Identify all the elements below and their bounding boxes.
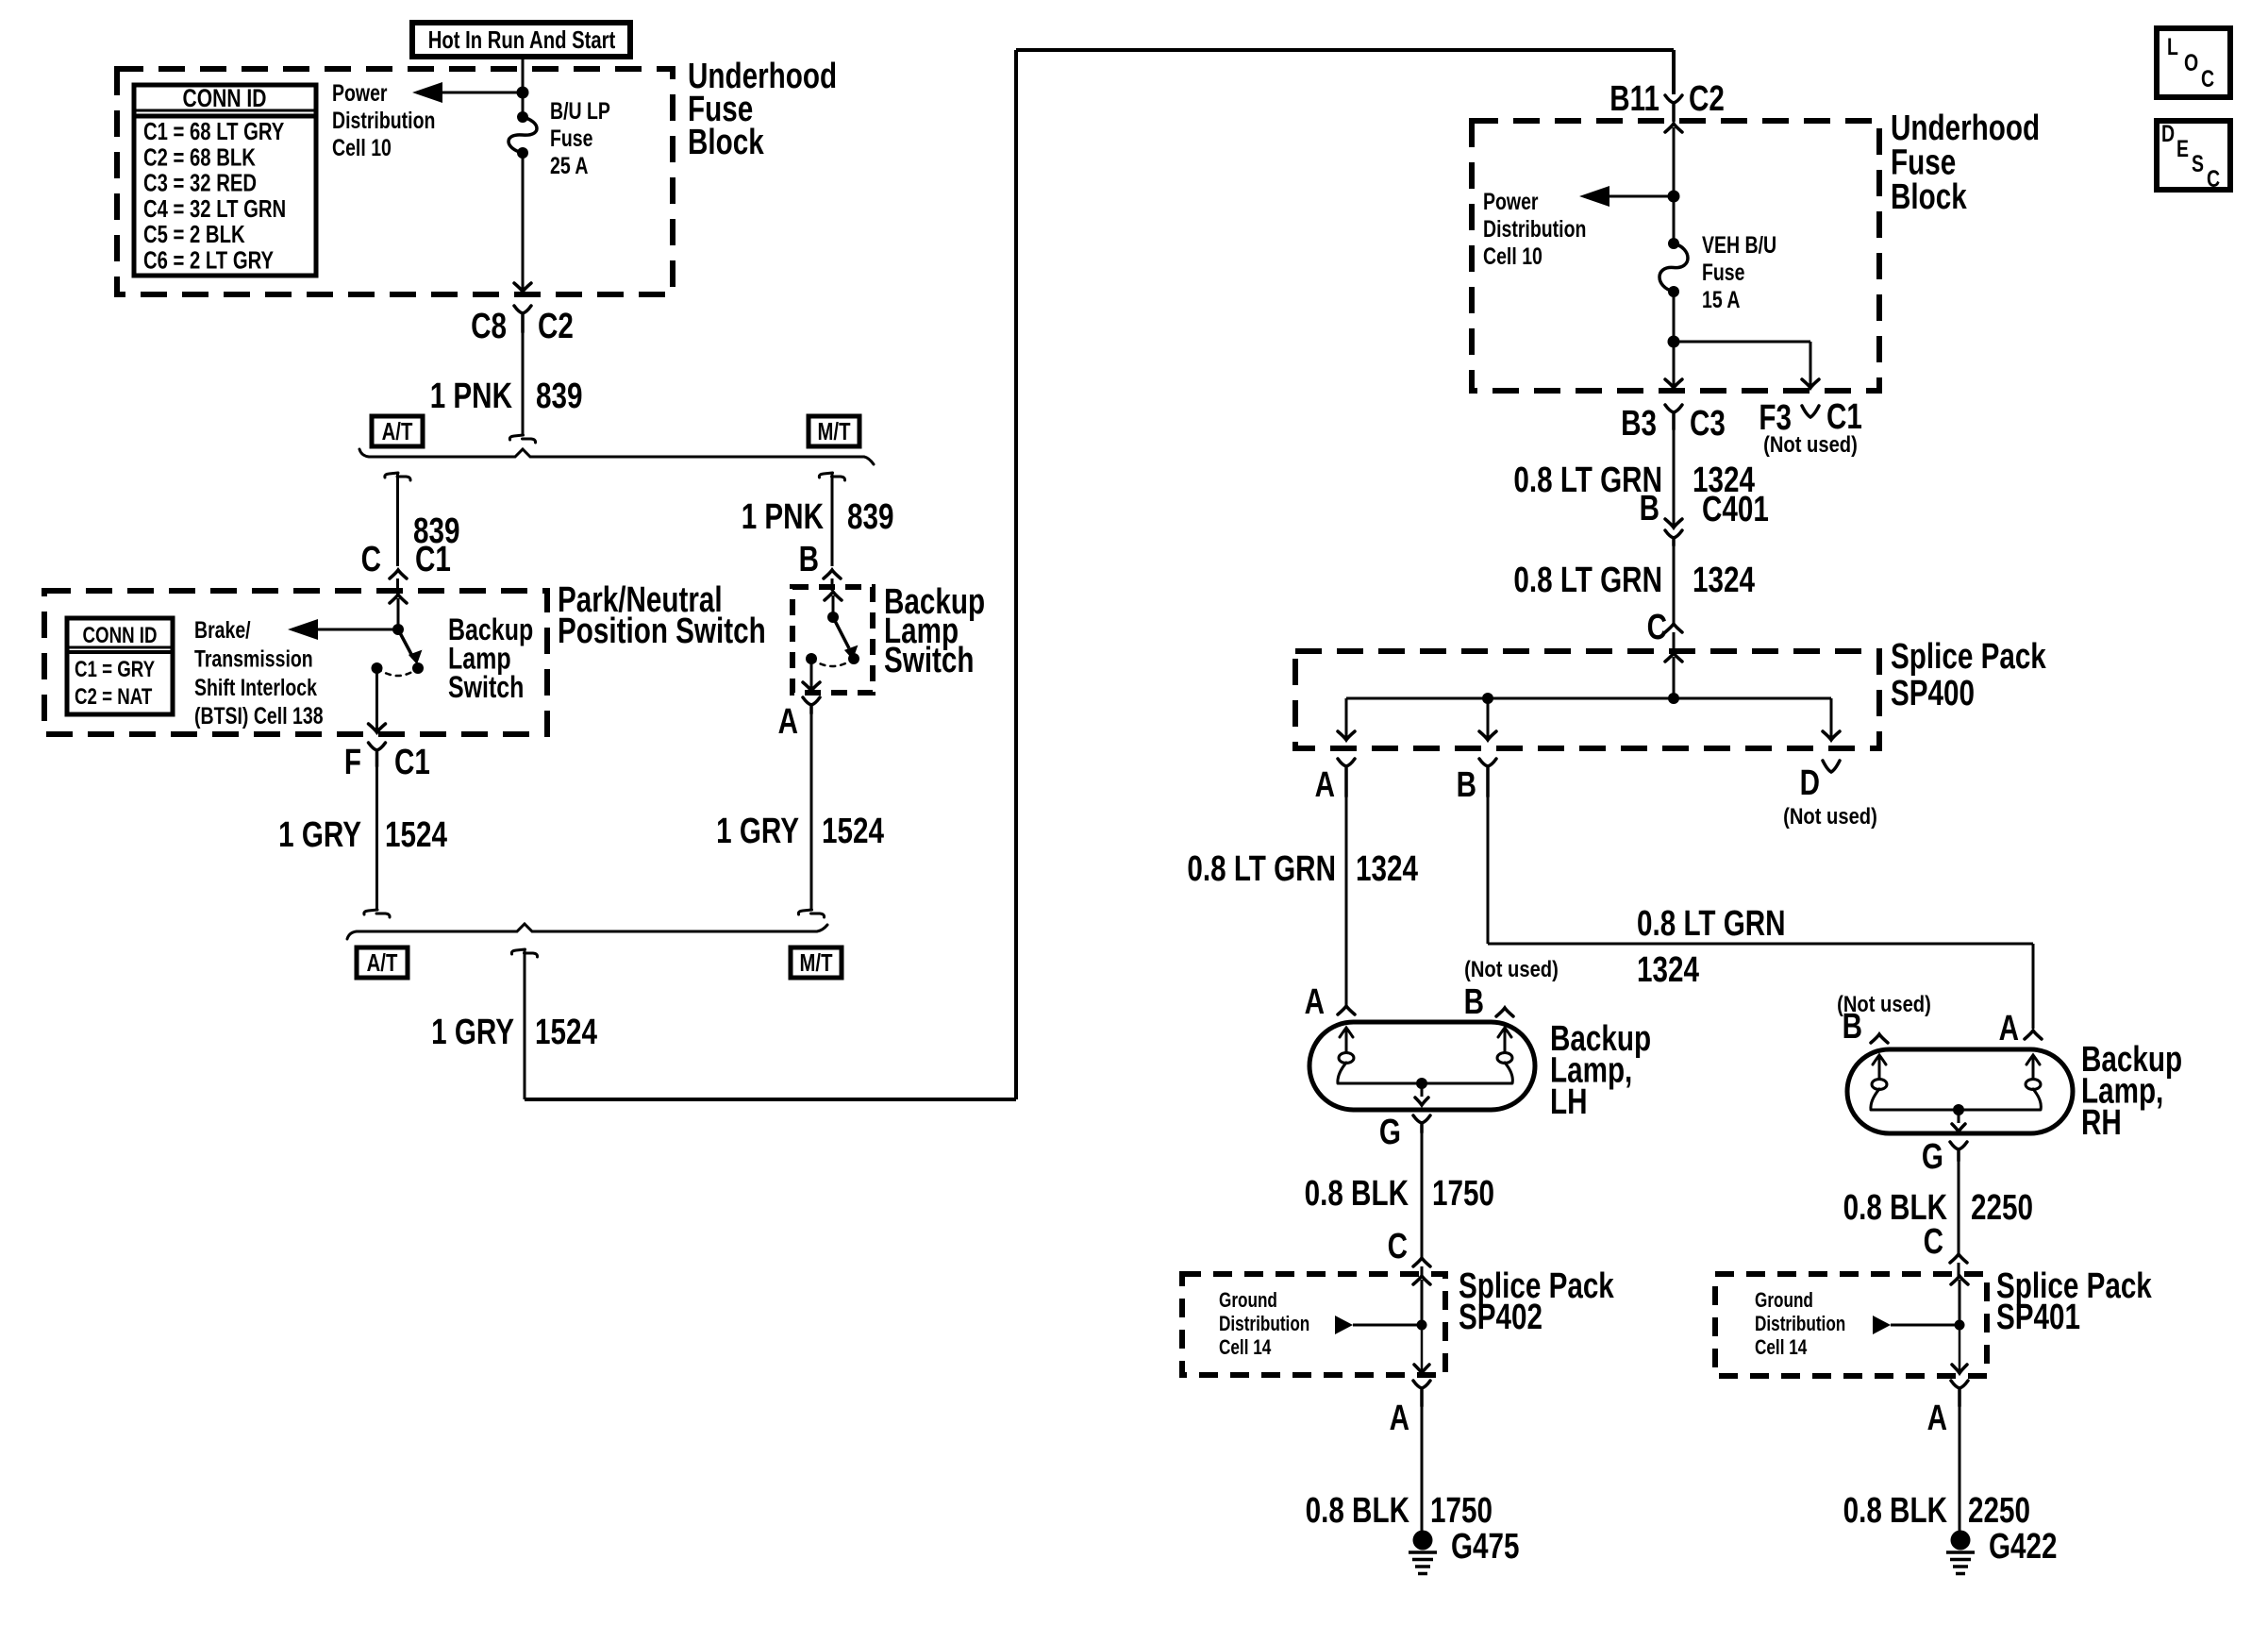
connector B female below SP400 bbox=[1479, 759, 1496, 796]
LOC reference box bbox=[2157, 28, 2230, 97]
svg-text:C: C bbox=[1647, 608, 1667, 647]
svg-text:Cell 10: Cell 10 bbox=[332, 135, 392, 161]
svg-text:0.8 BLK: 0.8 BLK bbox=[1306, 1491, 1410, 1531]
junction dot SP400 at C entry bbox=[1668, 693, 1679, 704]
fuse VEH B/U 15A (squiggle with terminals) bbox=[1668, 238, 1679, 249]
wire 0.8 LT GRN 1324 lower bbox=[1673, 545, 1676, 624]
wire M/T branch 1 PNK 839 bbox=[831, 473, 834, 566]
connector C8/C2 female symbol bbox=[514, 306, 531, 332]
connector C male chevron into SP400 bbox=[1665, 624, 1682, 632]
SP400 drop B with arrow bbox=[1487, 698, 1490, 738]
svg-text:LH: LH bbox=[1550, 1082, 1588, 1122]
svg-text:D: D bbox=[1800, 763, 1820, 803]
junction dot power distribution tap (right) bbox=[1668, 191, 1680, 203]
underhood fuse block (left) dashed enclosure bbox=[117, 69, 673, 294]
svg-text:C6 = 2 LT GRY: C6 = 2 LT GRY bbox=[143, 246, 274, 275]
connector A chevron at lamp RH bbox=[2025, 1031, 2042, 1039]
svg-text:B11: B11 bbox=[1609, 79, 1659, 119]
brace splitting to A/T and M/T options (top) bbox=[359, 449, 874, 464]
connector G female below lamp RH bbox=[1950, 1142, 1967, 1161]
connector B3/C3 female symbol bbox=[1665, 405, 1682, 429]
connector A female below SP402 bbox=[1413, 1381, 1430, 1406]
arrow into PNP switch from top (entry) bbox=[390, 595, 407, 603]
connector G female below lamp LH bbox=[1413, 1115, 1430, 1132]
ground G475 symbol bbox=[1413, 1531, 1433, 1551]
svg-text:(Not used): (Not used) bbox=[1783, 804, 1877, 830]
svg-text:SP401: SP401 bbox=[1996, 1298, 2080, 1337]
contact dot PNP left (output) bbox=[372, 662, 383, 674]
tilde at wire end above A/T M/T brace bbox=[509, 435, 535, 443]
junction dot fuse output branch bbox=[1668, 336, 1680, 348]
svg-text:Cell 10: Cell 10 bbox=[1483, 243, 1543, 270]
svg-text:C: C bbox=[1924, 1222, 1943, 1262]
lamp RH filament right bbox=[2026, 1055, 2040, 1064]
lamp RH filament left bbox=[1873, 1055, 1886, 1064]
svg-text:C5 = 2 BLK: C5 = 2 BLK bbox=[143, 220, 245, 248]
connector A female below SP400 bbox=[1338, 759, 1355, 796]
junction dot backup lamp switch common bbox=[827, 612, 839, 623]
svg-text:1 GRY: 1 GRY bbox=[278, 815, 361, 855]
wire into PNP switch box bbox=[396, 578, 399, 595]
svg-text:B: B bbox=[1464, 982, 1484, 1022]
svg-text:D: D bbox=[2161, 121, 2175, 147]
wire 0.8 BLK 2250 upper bbox=[1958, 1161, 1960, 1254]
svg-text:A: A bbox=[1927, 1399, 1947, 1438]
arrow into SP402 (entry) bbox=[1413, 1276, 1430, 1284]
wire 1 PNK 839 segment bbox=[522, 332, 525, 435]
connector A female below SP401 bbox=[1951, 1381, 1968, 1406]
arrow F3 branch at block edge bbox=[1802, 379, 1819, 388]
M/T option box (top) bbox=[809, 416, 859, 446]
svg-text:1 PNK: 1 PNK bbox=[430, 377, 513, 416]
svg-text:C8: C8 bbox=[471, 307, 507, 346]
svg-text:G475: G475 bbox=[1451, 1527, 1520, 1567]
svg-text:C1 = 68 LT GRY: C1 = 68 LT GRY bbox=[143, 117, 284, 145]
splice pack SP402 dashed enclosure bbox=[1182, 1274, 1445, 1375]
wire 0.8 BLK 2250 lower bbox=[1959, 1406, 1961, 1531]
svg-text:1750: 1750 bbox=[1430, 1491, 1493, 1531]
svg-text:O: O bbox=[2184, 50, 2198, 76]
SP400 drop A with arrow bbox=[1345, 698, 1348, 738]
svg-text:CONN ID: CONN ID bbox=[83, 623, 158, 648]
backup lamp RH body (stadium) bbox=[1847, 1049, 2073, 1133]
junction dot SP400 at B bbox=[1482, 693, 1493, 704]
svg-text:A: A bbox=[1315, 765, 1335, 805]
svg-text:G: G bbox=[1379, 1113, 1401, 1152]
connector D unused female below SP400 bbox=[1823, 761, 1840, 772]
wire top run to right fuse block bbox=[1016, 48, 1674, 52]
svg-text:B/U LP: B/U LP bbox=[550, 98, 610, 125]
ground G422 symbol bbox=[1951, 1531, 1971, 1551]
arrow into right fuse block (entry) bbox=[1665, 124, 1682, 132]
svg-text:B: B bbox=[1640, 489, 1659, 528]
wire into backup lamp switch box bbox=[831, 578, 834, 591]
wire 0.8 BLK 1750 lower bbox=[1421, 1406, 1424, 1531]
backup lamp LH body (stadium) bbox=[1309, 1022, 1535, 1110]
arrow from ground distribution (SP401) bbox=[1873, 1316, 1891, 1334]
CONN ID table (PNP switch / BTSI) bbox=[67, 618, 173, 714]
arrow to Power Distribution cell 10 (right) bbox=[1607, 195, 1674, 198]
svg-text:1524: 1524 bbox=[535, 1013, 597, 1052]
svg-text:C1: C1 bbox=[415, 540, 451, 579]
svg-text:M/T: M/T bbox=[800, 948, 833, 977]
wire into SP402 bbox=[1421, 1266, 1424, 1276]
svg-text:1524: 1524 bbox=[822, 812, 884, 851]
wire into SP401 bbox=[1958, 1263, 1960, 1276]
lamp LH ground arrow bbox=[1421, 1083, 1424, 1097]
svg-text:C3: C3 bbox=[1690, 404, 1726, 444]
svg-text:A/T: A/T bbox=[382, 417, 413, 445]
switch blade PNP (to backup lamp contact) bbox=[398, 629, 413, 658]
wire 1 GRY 1524 (A/T side) bbox=[375, 766, 378, 910]
node Hot In Run And Start (power feed box) bbox=[412, 23, 630, 57]
svg-text:C1 = GRY: C1 = GRY bbox=[75, 657, 155, 682]
wire hot feed down from Hot box bbox=[522, 57, 525, 117]
lamp LH filament right bbox=[1498, 1028, 1511, 1037]
svg-text:C: C bbox=[2207, 166, 2220, 193]
svg-text:Hot In Run And Start: Hot In Run And Start bbox=[428, 25, 616, 54]
svg-text:1 GRY: 1 GRY bbox=[431, 1013, 514, 1052]
svg-text:Cell 14: Cell 14 bbox=[1219, 1335, 1272, 1359]
connector A female symbol (BLS output) bbox=[803, 697, 820, 713]
backup lamp switch dashed enclosure (M/T) bbox=[792, 587, 873, 693]
svg-text:Distribution: Distribution bbox=[332, 108, 435, 134]
svg-text:1324: 1324 bbox=[1637, 950, 1699, 990]
junction dot SP402 bbox=[1417, 1320, 1427, 1331]
contact dot BLS left (output) bbox=[806, 653, 817, 664]
svg-text:Fuse: Fuse bbox=[550, 126, 593, 152]
svg-text:A: A bbox=[1390, 1399, 1409, 1438]
svg-text:F: F bbox=[344, 743, 361, 782]
svg-text:C401: C401 bbox=[1702, 490, 1769, 529]
svg-text:(Not used): (Not used) bbox=[1763, 432, 1858, 458]
svg-text:B: B bbox=[1843, 1007, 1862, 1047]
wire 1 GRY 1524 (M/T side) bbox=[810, 713, 813, 910]
svg-text:Position Switch: Position Switch bbox=[558, 612, 766, 651]
wire 0.8 LT GRN 1324 upper bbox=[1673, 429, 1676, 526]
svg-text:(Not used): (Not used) bbox=[1464, 957, 1559, 982]
svg-text:Ground: Ground bbox=[1219, 1288, 1277, 1312]
svg-text:E: E bbox=[2176, 136, 2189, 162]
lamp LH filament left bbox=[1340, 1028, 1353, 1037]
CONN ID table (underhood fuse block left) bbox=[134, 85, 316, 276]
arrow to Power Distribution cell 10 (left) bbox=[440, 92, 523, 94]
svg-text:A: A bbox=[1999, 1009, 2019, 1048]
svg-text:1 PNK: 1 PNK bbox=[742, 497, 825, 537]
svg-text:15 A: 15 A bbox=[1702, 287, 1741, 313]
contact dot PNP right (blade) bbox=[412, 662, 424, 674]
svg-text:(BTSI) Cell 138: (BTSI) Cell 138 bbox=[194, 703, 324, 729]
svg-text:C3 = 32 RED: C3 = 32 RED bbox=[143, 169, 257, 197]
wire joined output runs right bbox=[525, 1098, 1016, 1101]
svg-text:1750: 1750 bbox=[1432, 1174, 1494, 1214]
tilde at bottom of M/T side wire bbox=[798, 910, 824, 917]
arrow out of PNP box bottom bbox=[369, 724, 386, 732]
wire fuse output down (right) bbox=[1673, 292, 1676, 386]
wire drop into right fuse block bbox=[1672, 50, 1676, 94]
tilde at top of M/T branch wire bbox=[819, 473, 844, 480]
arrow into SP400 (entry) bbox=[1665, 653, 1682, 662]
svg-text:0.8 LT GRN: 0.8 LT GRN bbox=[1187, 849, 1336, 889]
svg-text:A: A bbox=[1305, 982, 1325, 1022]
svg-text:Brake/: Brake/ bbox=[194, 617, 251, 644]
svg-text:B: B bbox=[799, 540, 819, 579]
svg-text:Splice Pack: Splice Pack bbox=[1891, 637, 2046, 677]
svg-text:L: L bbox=[2167, 34, 2178, 60]
svg-text:Transmission: Transmission bbox=[194, 645, 313, 672]
svg-text:C1: C1 bbox=[1826, 397, 1862, 437]
arrow into backup lamp switch (entry) bbox=[825, 592, 842, 600]
svg-text:2250: 2250 bbox=[1971, 1188, 2033, 1228]
svg-text:839: 839 bbox=[847, 497, 894, 537]
wire 0.8 BLK 1750 upper bbox=[1421, 1132, 1424, 1258]
svg-text:C: C bbox=[1388, 1227, 1408, 1266]
dashed travel arc BLS bbox=[811, 659, 854, 666]
svg-text:Power: Power bbox=[1483, 189, 1539, 215]
connector C male chevron into SP402 bbox=[1413, 1258, 1430, 1266]
connector B chevron at lamp RH (not used) bbox=[1871, 1034, 1888, 1043]
svg-text:C: C bbox=[2201, 66, 2214, 92]
lamp LH ground junction dot bbox=[1416, 1078, 1427, 1089]
svg-text:Distribution: Distribution bbox=[1219, 1312, 1309, 1335]
svg-text:Power: Power bbox=[332, 80, 388, 107]
switch blade backup lamp switch bbox=[833, 617, 849, 648]
arrow out of fuse block bottom (left) bbox=[514, 283, 531, 292]
arrow out of BLS box bottom bbox=[803, 682, 820, 691]
svg-text:C4 = 32 LT GRN: C4 = 32 LT GRN bbox=[143, 194, 286, 223]
svg-text:A: A bbox=[778, 702, 798, 742]
wire SP400-B down, right, down to lamp RH bbox=[1487, 796, 1490, 944]
svg-text:SP400: SP400 bbox=[1891, 674, 1975, 713]
svg-text:Switch: Switch bbox=[448, 670, 524, 704]
SP402 drop with arrow bbox=[1421, 1325, 1424, 1371]
svg-text:C: C bbox=[361, 540, 381, 579]
svg-text:1524: 1524 bbox=[385, 815, 447, 855]
connector C/C1 male chevron into PNP switch bbox=[390, 570, 407, 578]
svg-text:A/T: A/T bbox=[367, 948, 398, 977]
park/neutral position switch dashed enclosure bbox=[44, 591, 547, 734]
svg-text:2250: 2250 bbox=[1968, 1491, 2030, 1531]
underhood fuse block (right) dashed enclosure bbox=[1472, 121, 1879, 391]
wire A/T branch 839 bbox=[396, 473, 399, 566]
svg-text:Block: Block bbox=[1891, 177, 1967, 217]
dashed travel arc PNP switch bbox=[377, 668, 419, 676]
A/T option box (top) bbox=[372, 416, 423, 446]
junction dot SP401 bbox=[1955, 1320, 1965, 1331]
arrow into SP401 (entry) bbox=[1951, 1276, 1968, 1284]
lamp RH ground arrow bbox=[1958, 1110, 1960, 1123]
lamp LH internal bus bbox=[1338, 1082, 1512, 1085]
DESC reference box bbox=[2157, 121, 2230, 190]
svg-text:839: 839 bbox=[536, 377, 583, 416]
connector B11/C2 female symbol bbox=[1665, 95, 1682, 121]
splice pack SP401 dashed enclosure bbox=[1715, 1274, 1987, 1376]
connector C401 inline (male over female) bbox=[1665, 519, 1682, 528]
M/T option box (bottom) bbox=[791, 947, 842, 978]
svg-text:M/T: M/T bbox=[818, 417, 851, 445]
svg-text:SP402: SP402 bbox=[1459, 1298, 1543, 1337]
svg-text:Distribution: Distribution bbox=[1483, 216, 1586, 243]
lamp RH ground junction dot bbox=[1953, 1104, 1964, 1115]
svg-text:Shift Interlock: Shift Interlock bbox=[194, 675, 317, 701]
tilde at top of joined output wire bbox=[511, 949, 537, 957]
svg-text:Switch: Switch bbox=[884, 641, 975, 680]
wire joined 1 GRY 1524 down bbox=[524, 949, 526, 1099]
svg-text:G422: G422 bbox=[1989, 1527, 2058, 1567]
svg-text:1324: 1324 bbox=[1356, 849, 1418, 889]
svg-text:C1: C1 bbox=[394, 743, 430, 782]
arrow to BTSI from switch common bbox=[313, 629, 398, 631]
connector F/C1 female symbol bbox=[369, 743, 386, 766]
tilde at bottom of A/T side wire bbox=[364, 910, 390, 917]
lamp RH internal bus bbox=[1871, 1109, 2041, 1112]
wire riser up right side of left section bbox=[1014, 50, 1018, 1099]
wire SP400-A down to backup lamp LH bbox=[1345, 796, 1348, 1008]
connector A chevron at lamp LH bbox=[1338, 1006, 1355, 1014]
splice pack SP400 dashed enclosure bbox=[1295, 651, 1879, 748]
junction dot PNP switch common bbox=[392, 624, 404, 635]
svg-text:0.8 LT GRN: 0.8 LT GRN bbox=[1513, 561, 1662, 600]
svg-text:B: B bbox=[1457, 765, 1476, 805]
wire BLS output down bbox=[810, 659, 813, 689]
svg-text:RH: RH bbox=[2081, 1103, 2122, 1143]
svg-text:Distribution: Distribution bbox=[1755, 1312, 1845, 1335]
fuse B/U LP 25A (squiggle with terminals) bbox=[517, 111, 528, 123]
wire into SP400 bbox=[1673, 632, 1676, 653]
svg-text:B3: B3 bbox=[1621, 404, 1657, 444]
junction dot power distribution tap (left) bbox=[517, 87, 529, 99]
svg-text:Fuse: Fuse bbox=[1702, 260, 1745, 286]
contact dot BLS right (blade) bbox=[848, 653, 859, 664]
svg-text:VEH B/U: VEH B/U bbox=[1702, 232, 1776, 259]
svg-text:0.8 BLK: 0.8 BLK bbox=[1843, 1491, 1948, 1531]
connector B male chevron into backup lamp switch bbox=[824, 570, 841, 578]
svg-text:C2: C2 bbox=[538, 307, 574, 346]
svg-text:S: S bbox=[2192, 151, 2204, 177]
arrow main output at block edge bbox=[1665, 379, 1682, 388]
svg-text:C2: C2 bbox=[1689, 79, 1725, 119]
svg-text:25 A: 25 A bbox=[550, 153, 589, 179]
bus bar inside SP400 bbox=[1346, 697, 1831, 700]
A/T option box (bottom) bbox=[357, 947, 408, 978]
connector F3/C1 unused female symbol bbox=[1802, 406, 1819, 417]
wire fuse output down to block edge bbox=[522, 153, 525, 290]
svg-text:1324: 1324 bbox=[1693, 561, 1755, 600]
svg-text:C2 = NAT: C2 = NAT bbox=[75, 684, 153, 710]
wire PNP output down bbox=[375, 668, 378, 730]
svg-text:0.8 BLK: 0.8 BLK bbox=[1305, 1174, 1409, 1214]
svg-text:Ground: Ground bbox=[1755, 1288, 1813, 1312]
svg-text:G: G bbox=[1922, 1137, 1943, 1177]
svg-text:Block: Block bbox=[688, 123, 764, 162]
svg-text:1 GRY: 1 GRY bbox=[716, 812, 799, 851]
svg-text:C2 = 68 BLK: C2 = 68 BLK bbox=[143, 142, 256, 171]
SP400 drop D with arrow bbox=[1830, 698, 1833, 738]
connector B chevron at lamp LH (not used) bbox=[1496, 1008, 1513, 1016]
connector C male chevron into SP401 bbox=[1950, 1254, 1967, 1263]
svg-text:CONN ID: CONN ID bbox=[183, 84, 267, 112]
brace joining A/T and M/T options (bottom) bbox=[347, 924, 827, 939]
SP401 drop with arrow bbox=[1959, 1325, 1961, 1371]
svg-text:0.8 LT GRN: 0.8 LT GRN bbox=[1637, 904, 1786, 944]
arrow from ground distribution (SP402) bbox=[1335, 1316, 1353, 1334]
tilde at top of A/T branch wire bbox=[385, 473, 410, 480]
wire branch to F3 bbox=[1674, 341, 1810, 344]
svg-text:Cell 14: Cell 14 bbox=[1755, 1335, 1808, 1359]
